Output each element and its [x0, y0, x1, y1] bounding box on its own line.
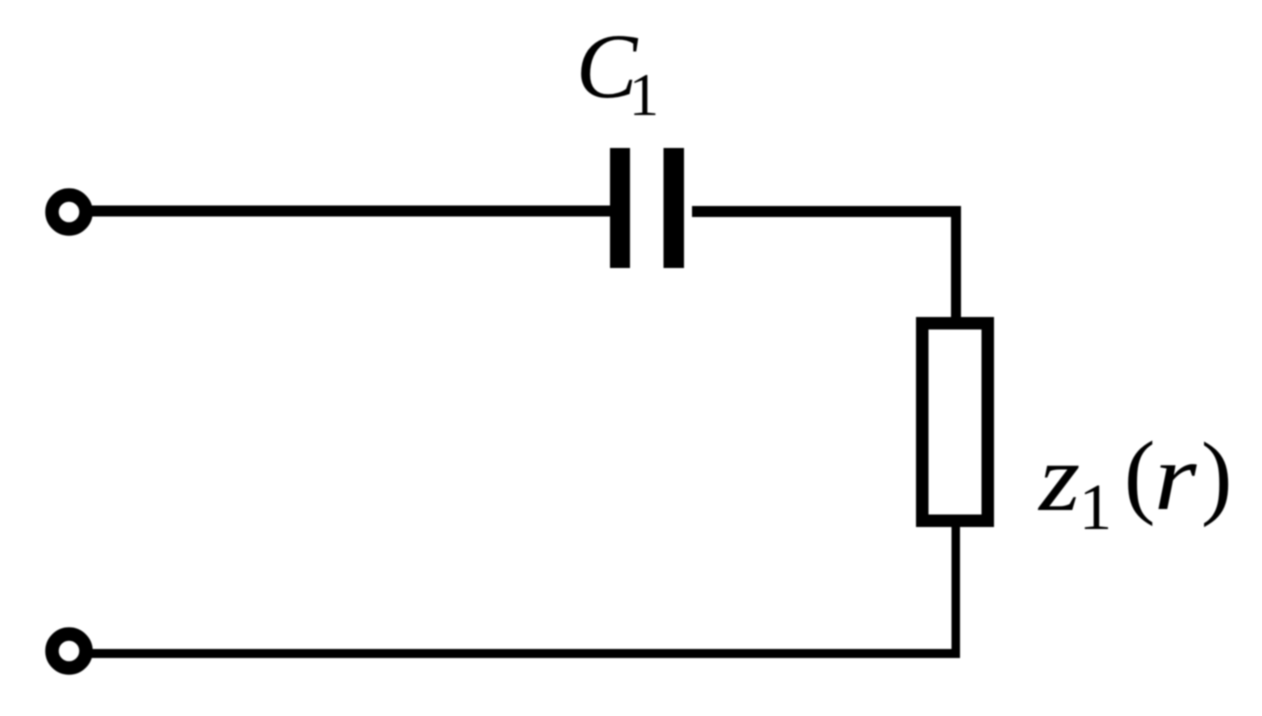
wire (vertical, impedance box down to bottom-right corner)	[952, 527, 961, 657]
svg-text:1: 1	[629, 62, 659, 128]
label C1	[576, 15, 659, 128]
terminal T1 (top-left open circle)	[52, 195, 86, 229]
wire (top horizontal, terminal to capacitor)	[88, 206, 610, 217]
wire (capacitor to top-right corner)	[692, 206, 961, 217]
wire (bottom horizontal, corner to terminal)	[88, 649, 960, 658]
impedance Z1 (rectangle body)	[922, 323, 988, 521]
svg-text:): )	[1201, 424, 1232, 528]
terminal T2 (bottom-left open circle)	[52, 634, 86, 668]
capacitor C1	[610, 148, 684, 268]
svg-text:z: z	[1037, 424, 1080, 531]
label z1(r)	[1037, 423, 1232, 544]
svg-text:(: (	[1124, 423, 1155, 527]
wire (vertical, corner down to impedance box)	[951, 206, 961, 318]
svg-text:r: r	[1154, 425, 1198, 530]
svg-text:1: 1	[1079, 471, 1112, 544]
